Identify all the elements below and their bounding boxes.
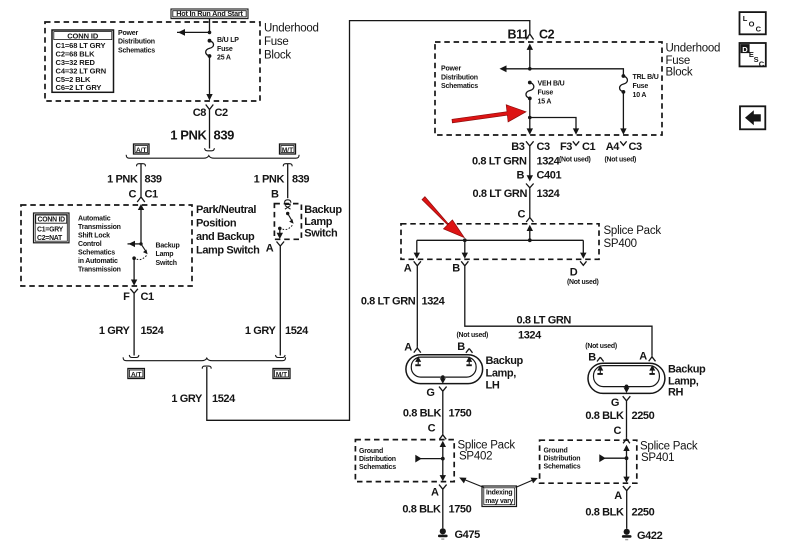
svg-text:VEH B/U: VEH B/U xyxy=(538,81,565,88)
svg-text:Block: Block xyxy=(666,66,693,78)
svg-text:Schematics: Schematics xyxy=(78,249,115,256)
connector F / C1 xyxy=(123,289,154,303)
wire label 1 PNK 839 (A/T) xyxy=(107,174,162,186)
connector A (SP402 out) xyxy=(431,485,447,499)
svg-text:SP401: SP401 xyxy=(641,452,674,464)
svg-text:C: C xyxy=(428,423,436,435)
connector A4 / C3 (not used) xyxy=(605,141,643,164)
CONN ID table (underhood fuse block) xyxy=(52,30,114,92)
svg-text:1 GRY: 1 GRY xyxy=(245,325,277,337)
connector C8 / C2 xyxy=(193,105,228,120)
wire label 0.8 LT GRN 1324 (RH feed) xyxy=(517,315,572,342)
svg-text:A: A xyxy=(431,487,439,499)
backup lamp switch (M/T) dashed box xyxy=(274,204,301,240)
svg-text:Lamp: Lamp xyxy=(156,251,174,258)
node C at SP401 xyxy=(613,425,629,444)
svg-text:C: C xyxy=(128,189,136,201)
wire C401 to splice pack xyxy=(529,193,531,217)
wire feed down to split xyxy=(205,117,215,151)
svg-text:Control: Control xyxy=(78,241,102,248)
svg-text:1 PNK: 1 PNK xyxy=(254,174,285,186)
wire merged output start hook xyxy=(202,366,211,369)
fuse block entry arrow (B11) xyxy=(527,44,533,69)
wire label 0.8 LT GRN 1324 (LH feed) xyxy=(361,296,446,308)
svg-text:Distribution: Distribution xyxy=(441,74,478,81)
wire label 0.8 LT GRN 1324 (B3) xyxy=(472,156,561,168)
splice pack SP401 dashed box xyxy=(540,440,637,483)
svg-text:Schematics: Schematics xyxy=(544,464,581,471)
wire fuse to box bottom with arrow xyxy=(206,56,212,101)
node M/T (boxed) xyxy=(280,144,296,154)
svg-text:1750: 1750 xyxy=(449,504,472,516)
svg-text:1524: 1524 xyxy=(212,393,236,405)
label Backup Lamp, RH xyxy=(668,363,706,398)
svg-text:C2=NAT: C2=NAT xyxy=(37,235,63,242)
svg-text:C: C xyxy=(759,59,765,68)
underhood fuse block (left) dashed box xyxy=(45,22,260,101)
wire label 0.8 BLK 2250 xyxy=(585,410,654,422)
svg-text:Transmission: Transmission xyxy=(78,266,121,273)
svg-text:F: F xyxy=(123,291,130,303)
wire merged 1 GRY to fuse block B11 xyxy=(207,21,530,421)
SP400 drop B with exit arrow xyxy=(462,240,468,258)
svg-text:Splice Pack: Splice Pack xyxy=(604,225,662,237)
svg-text:LH: LH xyxy=(486,380,500,392)
connector B (LH lamp, not used) xyxy=(457,332,489,353)
splice pack SP400 dashed box xyxy=(401,224,599,259)
svg-text:A: A xyxy=(266,243,274,255)
label Backup Lamp Switch (M/T) xyxy=(304,204,342,240)
svg-text:(Not used): (Not used) xyxy=(559,157,591,164)
button DESC xyxy=(740,43,766,68)
svg-text:SP400: SP400 xyxy=(604,238,637,250)
note arrow to SP402 xyxy=(459,478,484,488)
ground G475 xyxy=(438,528,480,541)
wire feed to TRL fuse xyxy=(530,69,624,75)
svg-text:B: B xyxy=(457,341,465,353)
red annotation arrow (SP400 splice B) xyxy=(422,197,464,238)
svg-text:B: B xyxy=(516,170,524,182)
wire label 1 PNK 839 (M/T) xyxy=(254,174,310,186)
svg-text:Backup: Backup xyxy=(668,363,706,375)
svg-text:Position: Position xyxy=(196,217,237,229)
svg-text:O: O xyxy=(749,19,755,28)
connector F3 / C1 (not used) xyxy=(559,141,596,164)
label Backup Lamp Switch (A/T) xyxy=(156,242,180,267)
wire M/T branch xyxy=(283,164,292,199)
box bottom exit arrows B3 F3 A4 xyxy=(527,128,627,134)
svg-text:Switch: Switch xyxy=(304,227,338,239)
svg-text:Underhood: Underhood xyxy=(264,23,319,35)
wire switch pivot to box bottom arrow xyxy=(277,228,283,239)
node B (M/T switch) xyxy=(271,189,291,203)
wire arrow to shift lock schematics xyxy=(123,241,141,247)
svg-text:B: B xyxy=(588,352,596,364)
svg-text:Fuse: Fuse xyxy=(633,83,649,90)
label Backup Lamp, LH xyxy=(486,355,524,392)
svg-text:B: B xyxy=(271,189,279,201)
connector B (RH lamp, not used) xyxy=(585,343,617,364)
merge brace A/T M/T xyxy=(123,357,285,360)
junction dot at power distribution branch xyxy=(208,31,212,35)
svg-text:C1=GRY: C1=GRY xyxy=(37,227,64,234)
svg-text:(Not used): (Not used) xyxy=(605,157,637,164)
svg-text:839: 839 xyxy=(292,174,309,186)
wire switch to box bottom with arrow xyxy=(131,258,137,286)
connector G (LH lamp) xyxy=(426,387,446,399)
label Ground Distribution Schematics (SP401) xyxy=(544,447,581,470)
fuse B/U LP 25 A xyxy=(206,39,214,58)
svg-text:Splice Pack: Splice Pack xyxy=(640,441,698,453)
svg-text:in Automatic: in Automatic xyxy=(78,258,118,265)
wire B3 to C401 xyxy=(529,152,531,176)
underhood fuse block (right) dashed box xyxy=(435,42,662,135)
power label Hot In Run And Start xyxy=(171,9,248,19)
svg-text:Distribution: Distribution xyxy=(118,39,155,46)
wire label 1 GRY 1524 (M/T) xyxy=(245,325,309,337)
svg-text:0.8 LT GRN: 0.8 LT GRN xyxy=(473,188,528,200)
value label TRL B/U Fuse 10 A xyxy=(633,74,659,99)
svg-text:Fuse: Fuse xyxy=(217,46,233,53)
wire arrow from Ground Distribution Schematics (SP401) xyxy=(599,454,626,462)
svg-text:10 A: 10 A xyxy=(633,92,647,99)
label Splice Pack SP401 xyxy=(640,441,698,464)
svg-text:and Backup: and Backup xyxy=(196,231,255,243)
svg-text:0.8 BLK: 0.8 BLK xyxy=(585,410,624,422)
svg-text:C: C xyxy=(756,24,762,33)
wire from Hot In Run And Start into fuse block xyxy=(209,19,211,33)
connector B11 / C2 fork xyxy=(507,27,554,41)
svg-text:Distribution: Distribution xyxy=(359,456,396,463)
node A (SP400 out) xyxy=(404,261,421,274)
wire label 0.8 BLK 1750 xyxy=(403,408,472,420)
node A/T (boxed, lower) xyxy=(128,369,144,379)
wire RH lamp G to SP401 xyxy=(626,407,628,438)
svg-text:B11: B11 xyxy=(507,27,528,41)
svg-text:Schematics: Schematics xyxy=(359,464,396,471)
svg-text:may vary: may vary xyxy=(485,498,513,505)
svg-text:RH: RH xyxy=(668,386,684,398)
label Underhood Fuse Block (right) xyxy=(666,42,721,78)
svg-text:1324: 1324 xyxy=(422,296,446,308)
Park/Neutral Position switch dashed box xyxy=(21,205,192,286)
SP400 drop D with exit arrow xyxy=(580,240,586,258)
node M/T (boxed, lower) xyxy=(273,369,290,379)
svg-text:1 GRY: 1 GRY xyxy=(99,325,131,337)
svg-text:Schematics: Schematics xyxy=(441,83,478,90)
svg-text:B: B xyxy=(452,263,460,275)
backup lamp switch (M/T) lever xyxy=(278,214,294,231)
svg-text:G422: G422 xyxy=(637,530,663,542)
svg-text:C2: C2 xyxy=(539,27,555,41)
svg-text:0.8 LT GRN: 0.8 LT GRN xyxy=(361,296,416,308)
svg-text:Power: Power xyxy=(118,30,138,37)
svg-text:839: 839 xyxy=(145,174,162,186)
button back arrow xyxy=(740,106,765,129)
connector B3 / C3 xyxy=(511,141,550,153)
svg-text:Fuse: Fuse xyxy=(666,55,691,67)
split brace A/T M/T xyxy=(126,155,299,158)
wire arrow to Power Distribution Schematics (right) xyxy=(500,65,530,72)
svg-text:2250: 2250 xyxy=(632,507,655,519)
svg-text:C3: C3 xyxy=(629,141,643,153)
svg-text:C1: C1 xyxy=(145,189,159,201)
svg-text:D: D xyxy=(570,267,578,279)
node D not used xyxy=(567,261,599,286)
svg-text:0.8 LT GRN: 0.8 LT GRN xyxy=(517,315,572,327)
fuse TRL B/U 10 A xyxy=(620,74,628,94)
value label VEH B/U Fuse 15 A xyxy=(538,81,565,106)
SP401 exit arrow xyxy=(623,477,629,483)
svg-text:C1: C1 xyxy=(141,291,155,303)
svg-text:Switch: Switch xyxy=(156,260,177,267)
svg-text:A: A xyxy=(404,342,412,354)
label Underhood Fuse Block (left) xyxy=(264,23,319,62)
svg-text:Underhood: Underhood xyxy=(666,42,721,54)
wire SP402 to G475 xyxy=(442,495,444,528)
svg-text:Transmission: Transmission xyxy=(78,224,121,231)
svg-text:0.8 BLK: 0.8 BLK xyxy=(403,408,442,420)
wire VEH fuse output with branch xyxy=(528,92,623,130)
svg-text:1750: 1750 xyxy=(449,408,472,420)
svg-text:Schematics: Schematics xyxy=(118,47,155,54)
wire label 1 GRY 1524 (A/T) xyxy=(99,325,165,337)
SP402 exit arrow xyxy=(440,475,446,481)
svg-text:25 A: 25 A xyxy=(217,55,231,62)
SP400 entry arrow xyxy=(527,225,533,241)
svg-text:0.8 BLK: 0.8 BLK xyxy=(402,504,441,516)
svg-text:1324: 1324 xyxy=(518,330,542,342)
backup lamp RH bulb xyxy=(588,363,665,393)
svg-text:0.8 LT GRN: 0.8 LT GRN xyxy=(472,156,527,168)
wire label 0.8 BLK 2250 (ground) xyxy=(585,507,654,519)
svg-text:C8: C8 xyxy=(193,107,207,119)
SP402 entry arrow and bus xyxy=(440,441,446,477)
junction dot fuse feed xyxy=(528,67,532,71)
label Automatic Transmission Shift Lock Control Schematics xyxy=(78,215,121,273)
svg-text:G: G xyxy=(426,387,434,399)
svg-text:15 A: 15 A xyxy=(538,98,552,105)
node C at SP402 xyxy=(428,423,447,440)
svg-text:Ground: Ground xyxy=(359,448,383,455)
svg-text:TRL B/U: TRL B/U xyxy=(633,74,659,81)
svg-text:C1: C1 xyxy=(582,141,596,153)
svg-text:Fuse: Fuse xyxy=(264,36,289,48)
svg-text:A: A xyxy=(404,263,412,275)
svg-text:C3: C3 xyxy=(537,141,551,153)
connector A (RH lamp) xyxy=(639,351,655,363)
label Ground Distribution Schematics (SP402) xyxy=(359,448,396,471)
svg-text:1 GRY: 1 GRY xyxy=(171,393,203,405)
connector C / C1 xyxy=(128,189,158,203)
SP400 bus bar xyxy=(417,238,584,242)
svg-text:1524: 1524 xyxy=(141,325,165,337)
svg-text:Lamp Switch: Lamp Switch xyxy=(196,244,260,256)
svg-text:Distribution: Distribution xyxy=(544,455,581,462)
svg-text:Block: Block xyxy=(264,50,291,62)
connector B / C401 xyxy=(516,170,561,194)
wire label 0.8 LT GRN 1324 (C401) xyxy=(473,188,561,200)
park/neutral box entry arrow xyxy=(138,204,144,244)
svg-text:B/U LP: B/U LP xyxy=(217,37,239,44)
svg-text:Fuse: Fuse xyxy=(538,90,554,97)
svg-text:1324: 1324 xyxy=(537,156,561,168)
svg-text:Lamp,: Lamp, xyxy=(486,368,517,380)
SP401 entry arrow and bus xyxy=(623,445,629,478)
svg-text:C6=2 LT GRY: C6=2 LT GRY xyxy=(56,83,102,92)
svg-text:Hot In Run And Start: Hot In Run And Start xyxy=(176,9,243,18)
svg-text:Backup: Backup xyxy=(304,204,342,216)
fuse VEH B/U 15 A xyxy=(526,81,534,101)
svg-text:M/T: M/T xyxy=(276,371,287,378)
label Power Distribution Schematics (left) xyxy=(118,30,155,55)
wire SP400-A to LH lamp xyxy=(416,272,418,347)
svg-text:B3: B3 xyxy=(511,141,525,153)
svg-text:1 PNK: 1 PNK xyxy=(170,128,207,143)
wire label 1 PNK 839 (feed) xyxy=(170,128,234,143)
switch contact (M/T) xyxy=(285,204,291,216)
SP400 drop A with exit arrow xyxy=(414,240,420,258)
svg-text:A: A xyxy=(639,351,647,363)
note arrow to SP401 xyxy=(516,478,538,488)
svg-text:Power: Power xyxy=(441,66,461,73)
wire end hook (A/T) xyxy=(129,355,139,358)
connector A (SP401 out) xyxy=(614,486,630,502)
wire F to merge xyxy=(133,300,135,356)
connector G (RH lamp) xyxy=(611,396,630,409)
svg-text:C: C xyxy=(517,209,525,221)
svg-text:0.8 BLK: 0.8 BLK xyxy=(585,507,624,519)
value label B/U LP Fuse 25 A xyxy=(217,37,239,62)
wire label 1 GRY 1524 (merged) xyxy=(171,393,236,405)
wire SP400-B to RH lamp xyxy=(465,272,652,356)
label Splice Pack SP402 xyxy=(458,440,516,463)
svg-text:A/T: A/T xyxy=(136,147,147,154)
label Park/Neutral Position and Backup Lamp Switch xyxy=(196,204,260,256)
label Splice Pack SP400 xyxy=(604,225,662,250)
svg-text:Backup: Backup xyxy=(156,242,180,249)
wire A/T branch xyxy=(137,164,146,196)
connector A (M/T switch out) xyxy=(266,242,284,255)
svg-text:A/T: A/T xyxy=(131,371,142,378)
button LOC xyxy=(740,12,766,34)
svg-text:1 PNK: 1 PNK xyxy=(107,174,138,186)
svg-text:C: C xyxy=(613,425,621,437)
wire LH lamp G to SP402 xyxy=(442,397,444,434)
svg-text:839: 839 xyxy=(214,128,235,143)
svg-text:CONN ID: CONN ID xyxy=(67,31,99,40)
svg-text:(Not used): (Not used) xyxy=(585,343,617,350)
label Power Distribution Schematics (right) xyxy=(441,66,478,91)
wire arrow from Ground Distribution Schematics (SP402) xyxy=(415,455,443,463)
svg-text:D: D xyxy=(742,45,748,54)
wire arrow to Power Distribution Schematics xyxy=(172,29,210,36)
svg-text:Backup: Backup xyxy=(486,355,524,367)
backup lamp LH bulb xyxy=(406,355,483,384)
node C at SP400 xyxy=(517,209,533,223)
svg-text:SP402: SP402 xyxy=(459,451,492,463)
svg-text:A: A xyxy=(614,490,622,502)
wire label 0.8 BLK 1750 (ground) xyxy=(402,504,471,516)
svg-text:A4: A4 xyxy=(606,141,621,153)
node B (SP400 out) xyxy=(452,261,468,274)
CONN ID table (park/neutral switch) xyxy=(34,213,70,243)
svg-text:CONN ID: CONN ID xyxy=(38,217,66,224)
svg-text:(Not used): (Not used) xyxy=(567,279,599,286)
node A/T (boxed) xyxy=(134,144,150,154)
svg-text:L: L xyxy=(743,14,748,23)
svg-text:Park/Neutral: Park/Neutral xyxy=(196,204,256,216)
svg-text:Lamp: Lamp xyxy=(304,216,332,228)
svg-text:(Not used): (Not used) xyxy=(457,332,489,339)
red annotation arrow (VEH B/U fuse) xyxy=(452,105,526,123)
backup lamp switch (A/T) lever xyxy=(132,244,147,260)
junction dot at switch top xyxy=(139,242,142,245)
svg-text:C401: C401 xyxy=(537,170,562,182)
svg-text:Indexing: Indexing xyxy=(486,490,512,497)
connector A (LH lamp) xyxy=(404,342,421,354)
wire M/T A to merge xyxy=(276,252,286,358)
svg-text:1524: 1524 xyxy=(285,325,309,337)
splice pack SP402 dashed box xyxy=(355,440,454,482)
svg-text:2250: 2250 xyxy=(632,410,655,422)
svg-text:Automatic: Automatic xyxy=(78,215,111,222)
svg-text:C2: C2 xyxy=(215,107,229,119)
svg-text:G475: G475 xyxy=(455,529,481,541)
ground G422 xyxy=(622,529,663,542)
svg-text:M/T: M/T xyxy=(282,147,293,154)
svg-text:Shift Lock: Shift Lock xyxy=(78,232,110,239)
svg-text:Ground: Ground xyxy=(544,447,568,454)
svg-text:1324: 1324 xyxy=(537,188,561,200)
note Indexing may vary xyxy=(482,486,517,507)
wire SP401 to G422 xyxy=(626,497,628,529)
svg-text:F3: F3 xyxy=(560,141,572,153)
svg-text:G: G xyxy=(611,397,619,409)
